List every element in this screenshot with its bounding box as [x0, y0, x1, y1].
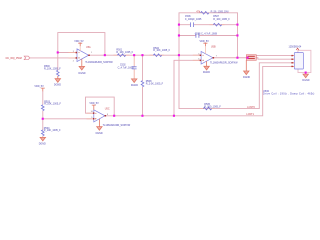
svg-text:R_10K_1005_F: R_10K_1005_F [116, 51, 133, 54]
power symbol U5A VDD_5V [78, 43, 82, 46]
svg-text:2: 2 [73, 61, 75, 63]
resistor R500 vertical [57, 70, 60, 76]
wire U5C feedback loop [86, 97, 115, 116]
svg-text:U5B: U5B [211, 46, 216, 49]
svg-text:Drive Coil : 190Ω , Damp Coil: Drive Coil : 190Ω , Damp Coil : 465Ω [263, 93, 315, 96]
capacitor C506 [191, 22, 194, 27]
svg-text:R_100_1005_F: R_100_1005_F [213, 18, 230, 21]
wire U5B output [213, 57, 247, 59]
svg-text:TL1660ARUDR_SOIPXW: TL1660ARUDR_SOIPXW [85, 61, 113, 64]
wire W2 U5A upper input [58, 52, 77, 54]
svg-text:U5A: U5A [86, 46, 91, 49]
svg-text:R_10K_1005_F: R_10K_1005_F [44, 68, 61, 71]
svg-text:U5C: U5C [105, 108, 110, 111]
wire coil loop right [298, 50, 311, 72]
svg-text:R_56_1005_DNI: R_56_1005_DNI [211, 10, 229, 13]
ground G6 below R504 [40, 137, 45, 141]
op-amp U5C [94, 110, 105, 122]
svg-text:TL1660ARUDR_SOIPXW: TL1660ARUDR_SOIPXW [210, 62, 238, 65]
wire LCNT0 corridor [179, 55, 294, 108]
resistor R505 [203, 107, 211, 110]
wire U5C output feedback to U5B lower input [174, 60, 201, 116]
coil U500 body [294, 53, 303, 69]
svg-text:R_10K_1005_F: R_10K_1005_F [44, 129, 61, 132]
svg-text:R_10K_1005_F: R_10K_1005_F [153, 49, 170, 52]
wire feedback row2 C506 R507 [179, 24, 238, 26]
resistor R506 56ohm DNI [201, 12, 209, 15]
ground G2 below U5A [79, 59, 84, 70]
resistor R504 vertical [42, 130, 45, 136]
power symbol U5C VDD_5V [92, 105, 96, 110]
wire feedback row3 C505 [179, 35, 238, 37]
svg-text:VDD_5V: VDD_5V [200, 40, 210, 43]
svg-text:DGND: DGND [243, 76, 250, 79]
ground G8 coil [303, 73, 308, 78]
svg-text:DGND: DGND [39, 143, 46, 146]
svg-text:R_560_1005_F: R_560_1005_F [204, 106, 221, 109]
svg-text:LCNT0: LCNT0 [247, 106, 255, 109]
power symbol divider VDD_5V [41, 88, 45, 91]
ground G1 below R500 [55, 76, 60, 82]
power symbol U5B VDD_5V [203, 43, 207, 46]
wire divider node to U5C lower input [43, 118, 93, 120]
resistor R507 [213, 23, 221, 26]
wire W1 input to U5A lower input [30, 57, 77, 59]
off-page connector DC_IRQ_PWM [24, 56, 30, 60]
coil top marker [296, 48, 299, 50]
wire R508 stem [142, 55, 144, 116]
svg-text:VDD_5V: VDD_5V [34, 85, 44, 88]
op-amp U5A [77, 49, 89, 62]
pin squares op-amps [76, 52, 215, 120]
capacitor C502 plates [132, 67, 137, 69]
ground G4 below U5C [97, 119, 102, 130]
svg-text:DGND: DGND [54, 84, 61, 87]
wire U5A feedback loop [58, 33, 105, 56]
coil pin squares [291, 55, 292, 67]
power pin stub U5A [79, 46, 81, 51]
svg-text:C_100pF_1005: C_100pF_1005 [185, 18, 202, 21]
svg-text:DC_IRQ_PWM: DC_IRQ_PWM [6, 57, 22, 60]
svg-text:1: 1 [91, 52, 93, 54]
wire feedback row1 47k [179, 13, 238, 58]
wire C502 stem [133, 55, 135, 79]
op-amp input lead overlays [69, 53, 200, 119]
svg-text:TL1660ARUDR_SOIPXW: TL1660ARUDR_SOIPXW [103, 124, 131, 127]
ground G3 below U5B [204, 61, 209, 70]
svg-text:VDD_5V: VDD_5V [74, 40, 84, 43]
power pin stub U5B [204, 46, 206, 54]
svg-text:DGND: DGND [131, 84, 138, 87]
op-amp input polarity marks [78, 53, 79, 59]
svg-text:R_2.0K_1005_F: R_2.0K_1005_F [146, 83, 164, 86]
svg-text:DGND: DGND [79, 72, 86, 75]
ground G5 below C502 [132, 79, 137, 83]
ground G7 below DCOIL box [244, 60, 249, 75]
svg-text:C_4.7uF_1608: C_4.7uF_1608 [118, 66, 134, 69]
capacitor C505 [196, 33, 199, 38]
svg-text:C505 C_4.7uF_1608: C505 C_4.7uF_1608 [195, 33, 218, 36]
svg-text:LCNT1: LCNT1 [246, 113, 254, 116]
wire U5C output long [105, 66, 294, 115]
wire jog to coil pin2 [256, 58, 294, 59]
svg-text:DGND: DGND [96, 132, 103, 135]
wire box to coil pin1 [255, 55, 294, 57]
wire main U5A output to U5B input [89, 54, 201, 56]
resistor R501 [117, 54, 125, 57]
op-amp U5B [201, 51, 213, 64]
svg-text:1250565-04: 1250565-04 [289, 45, 302, 48]
svg-text:DGND: DGND [203, 71, 210, 74]
svg-text:DGND: DGND [302, 79, 309, 82]
coil pin stubs [292, 56, 294, 67]
lead salmon overlays on inline resistors [114, 54, 164, 56]
wire vertical to R500 [57, 53, 59, 71]
wire divider chain [42, 91, 44, 137]
resistor R508 2.0K vertical [141, 81, 144, 87]
resistor R503 vertical [42, 105, 45, 111]
svg-text:R_10K_1005_F: R_10K_1005_F [44, 103, 61, 106]
svg-text:VDD_5V: VDD_5V [89, 102, 99, 105]
connector/off-page box DCOIL [246, 55, 256, 61]
resistor R502 [153, 54, 161, 57]
